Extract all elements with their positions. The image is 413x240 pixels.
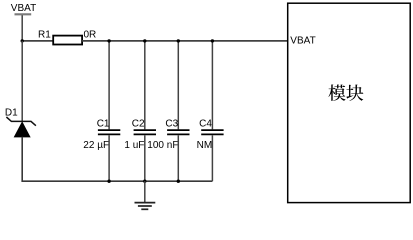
svg-text:C2: C2 — [132, 119, 145, 130]
wire C4 bottom leg — [211, 135, 213, 181]
junction C1 bottom — [107, 180, 110, 183]
capacitor C3 — [167, 130, 189, 134]
diode D1 (zener, cathode up) — [6, 117, 36, 137]
power bar VBAT — [15, 13, 32, 15]
junction C2 bottom / ground tap — [143, 180, 146, 183]
capacitor C1 — [98, 130, 120, 134]
wire C3 top leg — [177, 41, 179, 129]
wire C2 bottom leg — [144, 135, 146, 181]
wire C1 top leg — [108, 41, 110, 129]
svg-text:100 nF: 100 nF — [147, 140, 178, 151]
junction C1 top — [107, 39, 110, 42]
svg-text:C1: C1 — [97, 119, 110, 130]
svg-text:NM: NM — [197, 140, 213, 151]
svg-text:22 µF: 22 µF — [83, 140, 109, 151]
svg-text:R1: R1 — [38, 30, 51, 41]
svg-text:0R: 0R — [84, 30, 97, 41]
svg-text:1 uF: 1 uF — [124, 140, 144, 151]
junction C3 top — [177, 39, 180, 42]
svg-text:VBAT: VBAT — [290, 35, 315, 46]
wire top rail right segment — [82, 40, 288, 42]
junction at VBAT drop — [21, 39, 24, 42]
wire C1 bottom leg — [108, 135, 110, 181]
capacitor C4 — [201, 130, 223, 134]
junction C3 bottom — [177, 180, 180, 183]
wire D1 cathode leg — [21, 41, 23, 122]
wire VBAT vertical drop — [21, 15, 23, 41]
svg-text:C3: C3 — [165, 119, 178, 130]
wire C4 top leg — [211, 41, 213, 129]
wire ground stem — [144, 181, 146, 202]
junction C4 top — [211, 39, 214, 42]
wire top rail left segment — [22, 40, 53, 42]
module title 模块 — [328, 84, 363, 101]
svg-text:VBAT: VBAT — [11, 3, 36, 14]
wire C2 top leg — [144, 41, 146, 129]
wire D1 anode leg + bottom rail — [22, 137, 212, 182]
junction C2 top — [143, 39, 146, 42]
svg-text:C4: C4 — [199, 119, 212, 130]
wire C3 bottom leg — [177, 135, 179, 181]
capacitor C2 — [134, 130, 156, 134]
resistor R1 — [53, 36, 82, 45]
module box U1 — [288, 3, 411, 202]
ground — [135, 203, 156, 210]
